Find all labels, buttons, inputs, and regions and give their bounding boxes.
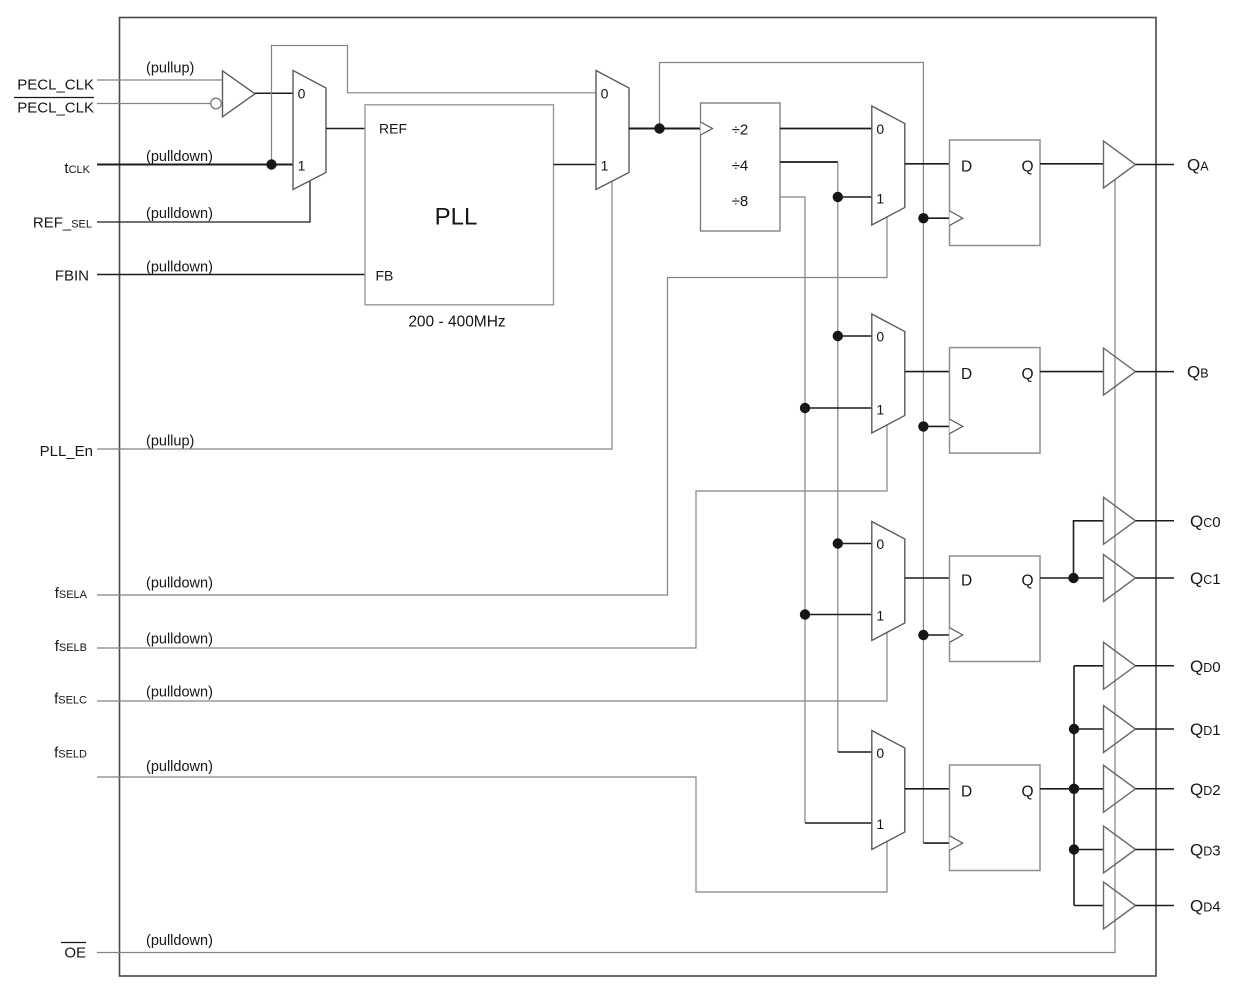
output buffer QD3 (1104, 826, 1136, 873)
wire clock to FF-D clock pin (923, 842, 949, 844)
inverting bubble on PECL_CLK-bar input (211, 98, 222, 109)
wire OE to output buffer enables (97, 180, 1115, 953)
device outline box (120, 18, 1157, 977)
svg-text:1: 1 (876, 191, 884, 207)
mux M2 (PLL bypass select) (596, 71, 629, 190)
svg-text:FBIN: FBIN (55, 268, 89, 285)
svg-text:(pulldown): (pulldown) (146, 759, 213, 775)
divider clock chevron (701, 122, 713, 135)
wire divide-by-2 to mux MA input 0 (780, 128, 872, 130)
svg-text:(pulldown): (pulldown) (146, 576, 213, 592)
PLL block U2 (365, 105, 554, 305)
wire buffer QD0 to output pin (1136, 665, 1175, 667)
wire PECL_CLK-bar row (97, 103, 211, 105)
wire QD bus to buffer QD0 (1074, 665, 1104, 667)
wire QD bus to buffer QD3 (1074, 849, 1104, 851)
svg-text:(pulldown): (pulldown) (146, 206, 213, 222)
svg-text:QA: QA (1187, 156, 1209, 175)
wire divide-by-8 to mux MC input 1 (805, 614, 872, 616)
svg-text:PECL_CLK: PECL_CLK (17, 76, 94, 93)
wire divide-by-4 vertical distribution (837, 162, 839, 752)
svg-text:1: 1 (876, 402, 884, 418)
wire QD vertical bus (1073, 666, 1075, 906)
divider block (divide by 2/4/8) (701, 103, 781, 231)
mux MD (channel frequency select) (872, 731, 905, 850)
wire FF-B Q to buffer QB (1040, 371, 1104, 373)
svg-text:D: D (961, 158, 972, 175)
junction divide-by-8 / mux MC input 1 (800, 609, 810, 619)
svg-text:(pulldown): (pulldown) (146, 631, 213, 647)
svg-text:fSELA: fSELA (55, 585, 88, 602)
D flip-flop FF-A (950, 140, 1041, 246)
svg-text:Q: Q (1022, 783, 1034, 800)
svg-text:D: D (961, 366, 972, 383)
svg-text:Q: Q (1022, 573, 1034, 590)
junction divide-by-4 / mux MA input 1 (833, 192, 843, 202)
wire buffer U1 output to mux M1 input 0 (255, 92, 293, 94)
svg-text:QC1: QC1 (1190, 569, 1221, 588)
junction tCLK / bypass (266, 159, 276, 169)
junction divide-by-8 / mux MB input 1 (800, 403, 810, 413)
mux MB (channel frequency select) (872, 314, 905, 433)
output buffer QD2 (1104, 765, 1136, 812)
svg-text:0: 0 (876, 536, 884, 552)
wire divide-by-4 to mux MB input 0 (838, 335, 872, 337)
wire mux MD output to FF-D D (905, 788, 950, 790)
svg-text:(pulldown): (pulldown) (146, 684, 213, 700)
flip-flop FF-C clock chevron (950, 628, 963, 643)
flip-flop FF-D clock chevron (950, 836, 963, 851)
wire divide-by-8 to mux MD input 1 (805, 822, 872, 824)
wire mux MA output to FF-A D (905, 163, 950, 165)
wire mux M1 output to PLL REF (326, 128, 365, 130)
output buffer QA (1104, 141, 1136, 188)
wire divide-by-4 output (780, 161, 838, 163)
mux M1 (reference select) (293, 71, 326, 190)
wire PECL_CLK row (97, 79, 223, 81)
svg-text:0: 0 (876, 329, 884, 345)
svg-text:PLL_En: PLL_En (40, 443, 93, 460)
svg-text:OE: OE (64, 944, 86, 961)
svg-text:0: 0 (876, 745, 884, 761)
wire divide-by-4 to mux MD input 0 (838, 751, 872, 753)
wire divide-by-8 distribution (780, 197, 805, 823)
flip-flop FF-A clock chevron (950, 211, 963, 226)
wire FF-C Q branch to buffer QC0 (1074, 521, 1104, 578)
svg-text:1: 1 (876, 816, 884, 832)
svg-text:0: 0 (601, 85, 609, 101)
svg-text:REF_SEL: REF_SEL (33, 215, 92, 232)
svg-text:0: 0 (298, 85, 306, 101)
svg-text:Q: Q (1022, 366, 1034, 383)
svg-text:FB: FB (376, 268, 394, 284)
svg-text:1: 1 (876, 608, 884, 624)
junction mux M2 output / clock distribution (654, 123, 664, 133)
svg-text:REF: REF (379, 121, 407, 137)
wire clock to FF-A clock pin (923, 217, 949, 219)
svg-text:D: D (961, 573, 972, 590)
junction QD bus / QD1 (1069, 724, 1079, 734)
wire buffer QB to output pin (1136, 371, 1175, 373)
svg-text:÷2: ÷2 (732, 122, 749, 139)
svg-text:QD0: QD0 (1190, 657, 1221, 676)
wire buffer QD2 to output pin (1136, 788, 1175, 790)
wire buffer QC1 to output pin (1136, 577, 1175, 579)
wire QD bus to buffer QD4 (1074, 905, 1104, 907)
svg-text:(pulldown): (pulldown) (146, 260, 213, 276)
svg-text:QD2: QD2 (1190, 780, 1221, 799)
output buffer QC0 (1104, 497, 1136, 544)
output buffer QB (1104, 348, 1136, 395)
svg-text:200 - 400MHz: 200 - 400MHz (408, 313, 505, 330)
wire divide-by-4 to mux MA input 1 (838, 196, 872, 198)
svg-text:Q: Q (1022, 158, 1034, 175)
svg-text:fSELD: fSELD (54, 745, 87, 762)
svg-text:PLL: PLL (435, 204, 478, 231)
svg-text:D: D (961, 783, 972, 800)
wire mux MB output to FF-B D (905, 371, 950, 373)
svg-text:(pulldown): (pulldown) (146, 933, 213, 949)
wire buffer QD4 to output pin (1136, 905, 1175, 907)
svg-text:1: 1 (601, 157, 609, 173)
D flip-flop FF-C (950, 556, 1041, 662)
junction clock / FF-B (918, 421, 928, 431)
output buffer QD1 (1104, 706, 1136, 753)
wire divide-by-4 to mux MC input 0 (838, 543, 872, 545)
svg-text:÷8: ÷8 (732, 193, 749, 210)
junction divide-by-4 / mux MB input 0 (833, 331, 843, 341)
flip-flop FF-B clock chevron (950, 419, 963, 434)
junction QD bus / QD2 (1069, 784, 1079, 794)
wire fSELC to mux MC select (97, 633, 887, 702)
svg-text:fSELC: fSELC (54, 690, 87, 707)
svg-text:QD3: QD3 (1190, 841, 1221, 860)
junction clock / FF-A (918, 213, 928, 223)
junction QD bus / QD3 (1069, 844, 1079, 854)
svg-text:QD4: QD4 (1190, 897, 1221, 916)
wire mux MC output to FF-C D (905, 577, 950, 579)
output buffer QC1 (1104, 555, 1136, 602)
svg-text:PECL_CLK: PECL_CLK (17, 100, 94, 117)
wire QD bus to buffer QD2 (1074, 788, 1104, 790)
wire QD bus to buffer QD1 (1074, 728, 1104, 730)
wire tCLK row to mux M1 input 1 (97, 164, 293, 166)
wire fSELB to mux MB select (97, 425, 887, 648)
svg-text:QB: QB (1187, 363, 1209, 382)
wire buffer QC0 to output pin (1136, 520, 1175, 522)
wire clock to FF-B clock pin (923, 425, 949, 427)
mux MC (channel frequency select) (872, 522, 905, 641)
wire clock distribution to flip-flop clocks (660, 63, 924, 844)
svg-text:(pullup): (pullup) (146, 61, 194, 77)
wire FBIN to PLL FB input (97, 274, 365, 276)
svg-text:(pullup): (pullup) (146, 433, 194, 449)
svg-text:QC0: QC0 (1190, 512, 1221, 531)
junction clock / FF-C (918, 630, 928, 640)
wire mux M2 output to divider clock (629, 128, 701, 130)
svg-text:1: 1 (298, 157, 306, 173)
wire buffer QA to output pin (1136, 164, 1175, 166)
wire FF-A Q to buffer QA (1040, 163, 1104, 165)
junction FF-C Q / QC0 branch (1068, 573, 1078, 583)
mux MA (channel frequency select) (872, 106, 905, 225)
svg-text:QD1: QD1 (1190, 720, 1221, 739)
svg-text:0: 0 (876, 121, 884, 137)
wire divide-by-8 to mux MB input 1 (805, 407, 872, 409)
wire PLL_En to mux M2 select (97, 181, 612, 449)
wire clock to FF-C clock pin (923, 634, 949, 636)
wire fSELA to mux MA select (97, 217, 887, 595)
D flip-flop FF-B (950, 348, 1041, 454)
output buffer QD0 (1104, 642, 1136, 689)
svg-text:fSELB: fSELB (55, 638, 87, 655)
PECL differential input buffer U1 (223, 71, 256, 117)
wire REF_SEL to mux M1 select (97, 182, 310, 223)
D flip-flop FF-D (950, 765, 1041, 871)
wire FF-C Q to buffer QC1 (1040, 577, 1104, 579)
svg-text:tCLK: tCLK (64, 160, 90, 177)
wire FF-D Q to QD bus (1040, 788, 1074, 790)
wire fSELD to mux MD select (97, 777, 887, 892)
wire buffer QD1 to output pin (1136, 728, 1175, 730)
wire PLL bypass tCLK to mux M2 input 0 (272, 46, 597, 165)
junction divide-by-4 / mux MC input 0 (833, 538, 843, 548)
wire buffer QD3 to output pin (1136, 849, 1175, 851)
output buffer QD4 (1104, 882, 1136, 929)
wire PLL output to mux M2 input 1 (554, 164, 597, 166)
svg-text:÷4: ÷4 (732, 157, 749, 174)
svg-text:(pulldown): (pulldown) (146, 149, 213, 165)
